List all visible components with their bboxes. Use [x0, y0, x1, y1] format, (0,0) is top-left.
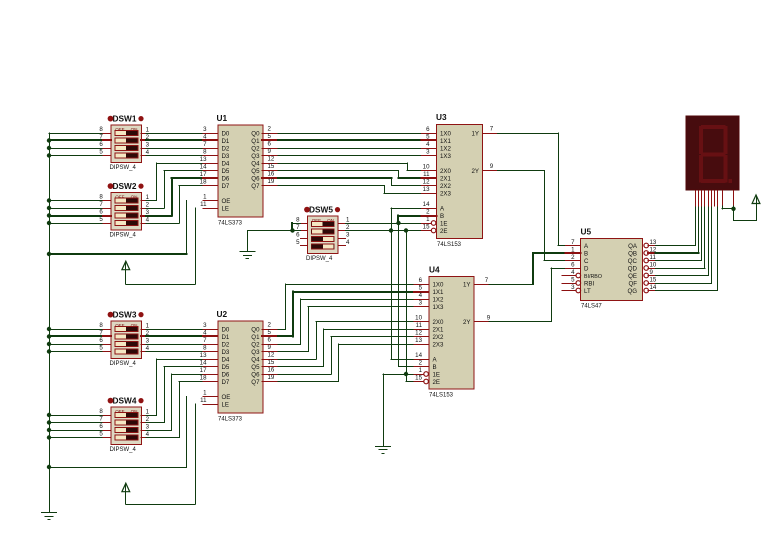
svg-text:DSW3: DSW3 — [113, 309, 137, 319]
svg-text:15: 15 — [415, 374, 422, 381]
svg-text:1: 1 — [203, 194, 207, 201]
svg-text:2X3: 2X3 — [440, 190, 452, 197]
svg-text:U5: U5 — [581, 227, 592, 237]
svg-text:8: 8 — [99, 126, 103, 133]
svg-text:3: 3 — [146, 209, 150, 216]
svg-text:8: 8 — [99, 194, 103, 201]
svg-text:2X2: 2X2 — [440, 183, 452, 190]
svg-text:6: 6 — [99, 209, 103, 216]
svg-text:D3: D3 — [222, 153, 230, 160]
svg-text:D2: D2 — [222, 341, 230, 348]
svg-text:15: 15 — [268, 163, 275, 170]
svg-text:7: 7 — [296, 224, 300, 231]
svg-text:U3: U3 — [436, 112, 447, 122]
svg-text:OE: OE — [222, 198, 231, 205]
svg-text:8: 8 — [203, 149, 207, 156]
svg-text:2: 2 — [268, 126, 272, 133]
svg-text:Q3: Q3 — [251, 153, 260, 160]
svg-text:11: 11 — [200, 397, 207, 404]
svg-text:4: 4 — [146, 149, 150, 156]
svg-text:1: 1 — [419, 367, 423, 374]
svg-text:9: 9 — [650, 269, 654, 276]
svg-text:12: 12 — [423, 178, 430, 185]
svg-text:74LS373: 74LS373 — [218, 221, 243, 227]
svg-text:2X2: 2X2 — [433, 334, 445, 341]
svg-text:Q4: Q4 — [251, 160, 260, 167]
svg-text:Q0: Q0 — [251, 326, 260, 333]
svg-text:14: 14 — [200, 360, 207, 367]
svg-text:5: 5 — [571, 276, 575, 283]
svg-text:7: 7 — [203, 141, 207, 148]
svg-text:2: 2 — [146, 330, 150, 337]
svg-text:11: 11 — [650, 254, 657, 261]
svg-text:4: 4 — [346, 239, 350, 246]
svg-text:3: 3 — [203, 126, 207, 133]
svg-text:2: 2 — [146, 416, 150, 423]
svg-text:3: 3 — [426, 148, 430, 155]
svg-text:B: B — [433, 364, 437, 371]
svg-text:1X1: 1X1 — [440, 138, 452, 145]
svg-text:4: 4 — [146, 345, 150, 352]
svg-text:19: 19 — [268, 374, 275, 381]
svg-text:1X3: 1X3 — [433, 304, 445, 311]
svg-text:15: 15 — [268, 359, 275, 366]
svg-text:DIPSW_4: DIPSW_4 — [110, 447, 137, 453]
svg-text:LE: LE — [222, 401, 230, 408]
svg-text:1: 1 — [146, 194, 150, 201]
svg-text:Q6: Q6 — [251, 371, 260, 378]
svg-text:D1: D1 — [222, 138, 230, 145]
svg-text:5: 5 — [268, 329, 272, 336]
svg-text:12: 12 — [268, 156, 275, 163]
svg-text:15: 15 — [650, 277, 657, 284]
svg-text:2X3: 2X3 — [433, 341, 445, 348]
svg-text:Q6: Q6 — [251, 175, 260, 182]
svg-text:1X3: 1X3 — [440, 153, 452, 160]
svg-text:D0: D0 — [222, 326, 230, 333]
svg-text:4: 4 — [419, 292, 423, 299]
svg-text:Q1: Q1 — [251, 138, 260, 145]
svg-text:3: 3 — [346, 232, 350, 239]
svg-text:74LS47: 74LS47 — [581, 304, 602, 310]
svg-text:DIPSW_4: DIPSW_4 — [110, 361, 137, 367]
svg-text:DIPSW_4: DIPSW_4 — [110, 165, 137, 171]
svg-text:12: 12 — [268, 352, 275, 359]
svg-text:QC: QC — [628, 258, 638, 265]
svg-text:10: 10 — [650, 262, 657, 269]
svg-text:2Y: 2Y — [463, 319, 471, 326]
svg-text:9: 9 — [487, 314, 491, 321]
svg-text:QB: QB — [628, 250, 637, 257]
svg-text:74LS153: 74LS153 — [429, 393, 454, 399]
svg-text:8: 8 — [99, 322, 103, 329]
svg-text:1: 1 — [203, 390, 207, 397]
svg-text:1Y: 1Y — [471, 130, 479, 137]
svg-text:8: 8 — [203, 345, 207, 352]
svg-text:DSW4: DSW4 — [113, 395, 137, 405]
svg-text:D2: D2 — [222, 145, 230, 152]
svg-text:4: 4 — [146, 217, 150, 224]
svg-text:13: 13 — [415, 337, 422, 344]
svg-text:5: 5 — [99, 216, 103, 223]
svg-text:14: 14 — [650, 284, 657, 291]
svg-text:5: 5 — [99, 345, 103, 352]
svg-text:13: 13 — [200, 352, 207, 359]
svg-text:6: 6 — [99, 141, 103, 148]
svg-text:OE: OE — [222, 394, 231, 401]
svg-text:D5: D5 — [222, 168, 230, 175]
svg-text:QF: QF — [628, 280, 637, 287]
svg-text:4: 4 — [203, 330, 207, 337]
svg-text:16: 16 — [268, 367, 275, 374]
svg-text:Q7: Q7 — [251, 183, 260, 190]
svg-text:10: 10 — [415, 314, 422, 321]
svg-text:B: B — [440, 213, 444, 220]
svg-text:DSW1: DSW1 — [113, 113, 137, 123]
svg-text:6: 6 — [99, 423, 103, 430]
svg-text:2X0: 2X0 — [433, 319, 445, 326]
svg-text:4: 4 — [203, 134, 207, 141]
svg-text:D4: D4 — [222, 160, 230, 167]
svg-text:D3: D3 — [222, 349, 230, 356]
svg-text:3: 3 — [571, 284, 575, 291]
svg-text:2X1: 2X1 — [440, 175, 452, 182]
svg-text:D6: D6 — [222, 175, 230, 182]
svg-text:BI/RBO: BI/RBO — [584, 274, 602, 280]
svg-text:2E: 2E — [433, 379, 441, 386]
svg-text:2: 2 — [146, 202, 150, 209]
svg-text:Q5: Q5 — [251, 168, 260, 175]
svg-text:9: 9 — [490, 163, 494, 170]
svg-text:Q5: Q5 — [251, 364, 260, 371]
svg-text:2Y: 2Y — [471, 168, 479, 175]
svg-text:Q7: Q7 — [251, 379, 260, 386]
svg-text:Q0: Q0 — [251, 130, 260, 137]
svg-text:LE: LE — [222, 205, 230, 212]
svg-text:RBI: RBI — [584, 280, 595, 287]
svg-text:16: 16 — [268, 171, 275, 178]
svg-text:1: 1 — [146, 409, 150, 416]
svg-text:14: 14 — [415, 352, 422, 359]
svg-text:LT: LT — [584, 288, 591, 295]
svg-text:1: 1 — [146, 127, 150, 134]
svg-text:10: 10 — [423, 163, 430, 170]
svg-text:D1: D1 — [222, 334, 230, 341]
svg-text:4: 4 — [571, 269, 575, 276]
svg-text:11: 11 — [416, 322, 423, 329]
svg-text:4: 4 — [146, 431, 150, 438]
svg-text:2X0: 2X0 — [440, 168, 452, 175]
svg-text:1X0: 1X0 — [440, 130, 452, 137]
svg-text:U2: U2 — [217, 309, 228, 319]
svg-text:1E: 1E — [440, 220, 448, 227]
svg-text:7: 7 — [485, 277, 489, 284]
svg-text:3: 3 — [146, 338, 150, 345]
svg-text:1: 1 — [146, 323, 150, 330]
svg-text:D7: D7 — [222, 183, 230, 190]
svg-text:19: 19 — [268, 178, 275, 185]
svg-text:7: 7 — [99, 416, 103, 423]
svg-text:2: 2 — [571, 254, 575, 261]
svg-text:18: 18 — [200, 179, 207, 186]
svg-text:5: 5 — [296, 239, 300, 246]
svg-text:1X0: 1X0 — [433, 281, 445, 288]
svg-text:1X1: 1X1 — [433, 289, 445, 296]
svg-text:D7: D7 — [222, 379, 230, 386]
svg-text:1: 1 — [346, 217, 350, 224]
svg-text:9: 9 — [268, 344, 272, 351]
svg-text:3: 3 — [146, 142, 150, 149]
svg-text:74LS373: 74LS373 — [218, 417, 243, 423]
svg-text:5: 5 — [99, 431, 103, 438]
svg-text:D5: D5 — [222, 364, 230, 371]
svg-text:D: D — [584, 265, 589, 272]
svg-text:7: 7 — [571, 239, 575, 246]
svg-text:QA: QA — [628, 243, 638, 250]
svg-text:7: 7 — [203, 337, 207, 344]
svg-text:14: 14 — [200, 164, 207, 171]
svg-text:13: 13 — [423, 186, 430, 193]
svg-text:DIPSW_4: DIPSW_4 — [306, 256, 333, 262]
svg-text:6: 6 — [426, 126, 430, 133]
svg-text:DIPSW_4: DIPSW_4 — [110, 233, 137, 239]
svg-text:74LS153: 74LS153 — [437, 242, 462, 248]
svg-text:15: 15 — [423, 223, 430, 230]
svg-text:D0: D0 — [222, 130, 230, 137]
svg-text:18: 18 — [200, 375, 207, 382]
svg-text:3: 3 — [146, 424, 150, 431]
svg-text:1Y: 1Y — [463, 281, 471, 288]
svg-text:2: 2 — [419, 359, 423, 366]
svg-text:7: 7 — [99, 330, 103, 337]
svg-text:8: 8 — [99, 408, 103, 415]
svg-text:7: 7 — [490, 126, 494, 133]
svg-text:2: 2 — [268, 322, 272, 329]
svg-text:D6: D6 — [222, 371, 230, 378]
svg-text:17: 17 — [200, 367, 207, 374]
svg-text:2: 2 — [426, 208, 430, 215]
svg-text:5: 5 — [419, 284, 423, 291]
svg-text:D4: D4 — [222, 356, 230, 363]
svg-text:2: 2 — [146, 134, 150, 141]
svg-text:U1: U1 — [217, 113, 228, 123]
svg-text:6: 6 — [296, 232, 300, 239]
svg-text:Q2: Q2 — [251, 145, 260, 152]
svg-text:6: 6 — [268, 141, 272, 148]
svg-text:7: 7 — [99, 201, 103, 208]
svg-text:2: 2 — [346, 224, 350, 231]
svg-text:4: 4 — [426, 141, 430, 148]
svg-text:6: 6 — [571, 261, 575, 268]
svg-text:QG: QG — [627, 288, 637, 295]
svg-text:DSW5: DSW5 — [309, 204, 333, 214]
svg-text:2X1: 2X1 — [433, 326, 445, 333]
svg-text:5: 5 — [268, 133, 272, 140]
svg-text:Q1: Q1 — [251, 334, 260, 341]
svg-text:QD: QD — [628, 265, 638, 272]
svg-text:1X2: 1X2 — [433, 296, 445, 303]
svg-text:6: 6 — [268, 337, 272, 344]
svg-text:C: C — [584, 258, 589, 265]
svg-text:17: 17 — [200, 171, 207, 178]
svg-text:1X2: 1X2 — [440, 145, 452, 152]
svg-text:QE: QE — [628, 273, 637, 280]
svg-text:12: 12 — [415, 329, 422, 336]
svg-text:6: 6 — [99, 337, 103, 344]
svg-text:8: 8 — [296, 217, 300, 224]
svg-text:Q2: Q2 — [251, 341, 260, 348]
svg-text:11: 11 — [200, 201, 207, 208]
svg-text:U4: U4 — [429, 265, 440, 275]
svg-text:2E: 2E — [440, 228, 448, 235]
svg-text:5: 5 — [426, 133, 430, 140]
svg-text:13: 13 — [200, 156, 207, 163]
svg-text:3: 3 — [419, 299, 423, 306]
svg-text:13: 13 — [650, 239, 657, 246]
svg-text:DSW2: DSW2 — [113, 181, 137, 191]
svg-text:9: 9 — [268, 148, 272, 155]
svg-text:5: 5 — [99, 149, 103, 156]
svg-text:6: 6 — [419, 277, 423, 284]
svg-text:11: 11 — [423, 171, 430, 178]
svg-text:7: 7 — [99, 134, 103, 141]
svg-text:Q4: Q4 — [251, 356, 260, 363]
svg-text:3: 3 — [203, 322, 207, 329]
svg-text:Q3: Q3 — [251, 349, 260, 356]
svg-text:14: 14 — [423, 201, 430, 208]
svg-text:1E: 1E — [433, 371, 441, 378]
svg-text:B: B — [584, 250, 588, 257]
